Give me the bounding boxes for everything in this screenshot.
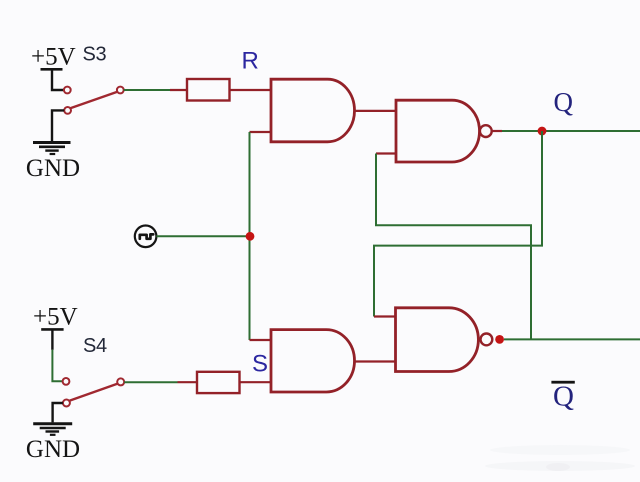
ground symbol (top) (33, 143, 71, 155)
wire Q output (502, 130, 640, 132)
wire S3 pole to resistor R1 (124, 89, 170, 91)
switch S4 upper throw contact (63, 378, 70, 385)
NAND gate U4 (bottom-right) (396, 308, 479, 372)
feedback wire Qbar to U2 lower input (376, 154, 531, 340)
junction dot on Q net (538, 127, 547, 136)
NAND gate U2 (top-right) (396, 100, 480, 162)
svg-text:Q: Q (553, 381, 574, 413)
wire (red) into resistor R2 (178, 381, 198, 383)
resistor R1 (187, 79, 230, 101)
node Qbar label (551, 381, 574, 413)
wire U1 output to U2 input (354, 110, 396, 112)
NAND gate U3 (bottom-left) (271, 330, 355, 392)
svg-text:Q: Q (554, 87, 574, 117)
wire +5V to S4 upper contact (green) (52, 350, 62, 382)
switch S3 upper throw contact (64, 87, 71, 94)
switch S4 pole contact (117, 378, 124, 385)
wire from S4 lower contact to ground (53, 403, 63, 422)
wire U3 output to U4 input (354, 360, 396, 362)
feedback wire Q to U4 upper input (374, 131, 542, 317)
svg-text:GND: GND (26, 155, 80, 182)
+5V supply symbol (top, for S3) (41, 69, 64, 90)
U4 output bubble (481, 334, 493, 346)
switch S3 pole contact (117, 87, 124, 94)
wire U2 bubble out (red) (492, 130, 502, 132)
junction dot on Qbar net (495, 335, 504, 344)
clock source CP (135, 226, 157, 248)
svg-text:GND: GND (26, 436, 80, 463)
wire stub U2 lower input (376, 152, 396, 154)
watermark smudge (485, 445, 635, 471)
wire resistor R2 to gate U3 input (node S) (240, 381, 272, 383)
wire Qbar output (504, 338, 640, 340)
wire resistor R1 to gate U1 input (node R) (230, 89, 272, 91)
wire from S3 lower contact to ground (52, 110, 64, 141)
resistor R2 (197, 372, 240, 393)
wire (red) into resistor R1 (170, 89, 187, 91)
svg-text:R: R (242, 48, 259, 75)
NAND gate U1 (top-left) (271, 79, 355, 142)
switch S3 arm (70, 92, 118, 109)
wire stub clock to U3 upper input (250, 339, 272, 341)
ground symbol (bottom) (33, 424, 72, 435)
wire clock source to junction (156, 235, 249, 237)
svg-text:S3: S3 (83, 44, 107, 66)
svg-text:+5V: +5V (31, 44, 76, 71)
U2 output bubble (480, 125, 492, 137)
+5V supply symbol (bottom, for S4) (41, 329, 63, 349)
switch S4 lower throw contact (63, 400, 70, 407)
svg-text:+5V: +5V (33, 304, 78, 331)
svg-text:S4: S4 (83, 335, 107, 357)
vertical clock net wire (249, 132, 251, 340)
junction dot on clock net (246, 232, 255, 241)
switch S3 lower throw contact (64, 107, 71, 114)
wire S4 pole to resistor R2 (124, 381, 177, 383)
wire stub U4 upper input (374, 315, 396, 317)
wire stub clock to U1 lower input (250, 131, 272, 133)
svg-text:S: S (252, 351, 268, 378)
switch S4 arm (69, 384, 118, 401)
